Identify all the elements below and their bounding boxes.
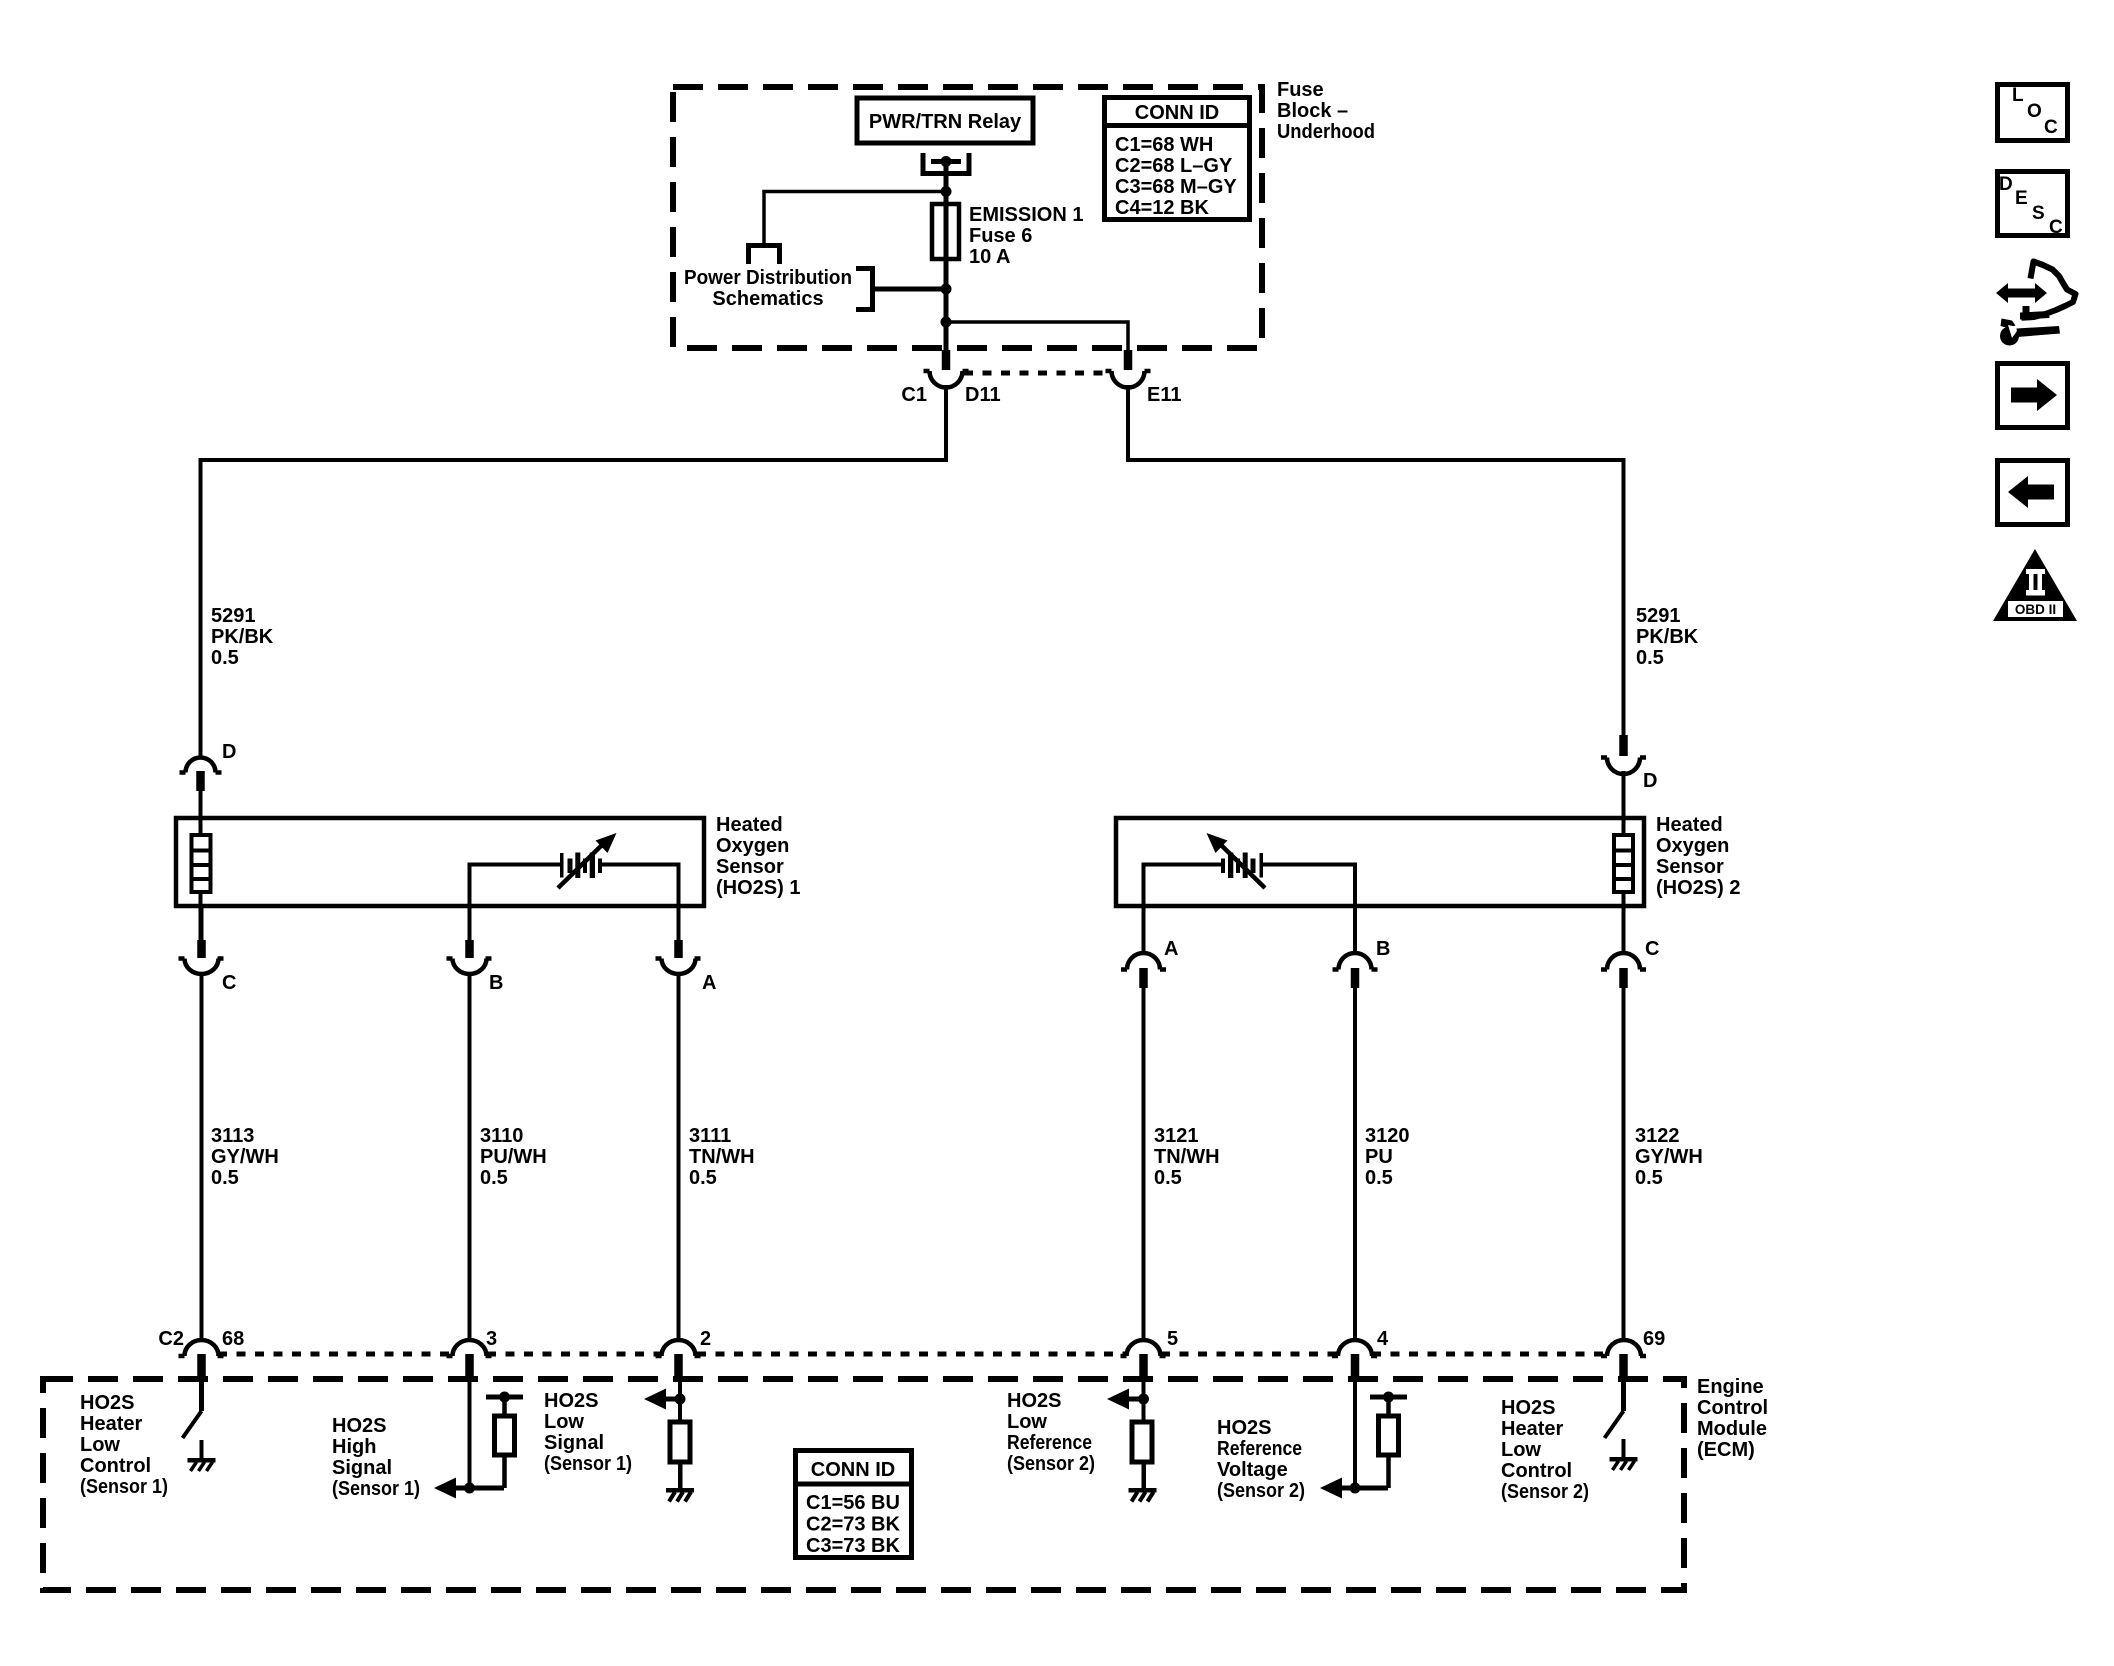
label B2 bbox=[1376, 938, 1390, 960]
svg-text:Reference: Reference bbox=[1217, 1438, 1302, 1460]
svg-text:GY/WH: GY/WH bbox=[211, 1146, 279, 1168]
svg-text:D11: D11 bbox=[965, 384, 1001, 406]
svg-text:5: 5 bbox=[1167, 1328, 1178, 1350]
svg-text:(Sensor 2): (Sensor 2) bbox=[1217, 1480, 1305, 1502]
wire: relay output down to fuse bbox=[944, 161, 949, 292]
wire 3121 TN/WH bbox=[1142, 987, 1146, 1342]
svg-text:Signal: Signal bbox=[332, 1457, 392, 1479]
svg-text:0.5: 0.5 bbox=[1636, 647, 1664, 669]
off-page fork symbol bbox=[749, 246, 780, 265]
svg-text:C1=56 BU: C1=56 BU bbox=[806, 1492, 900, 1514]
svg-text:HO2S: HO2S bbox=[332, 1415, 386, 1437]
svg-text:L: L bbox=[2012, 85, 2024, 106]
svg-text:HO2S: HO2S bbox=[1007, 1390, 1061, 1412]
power distribution schematics label bbox=[684, 267, 852, 310]
label HO2S heater low control sensor1 bbox=[80, 1392, 168, 1498]
svg-text:Heated: Heated bbox=[1656, 814, 1723, 836]
svg-text:CONN ID: CONN ID bbox=[811, 1459, 895, 1481]
icon wrench tool bbox=[2000, 319, 2060, 346]
heated oxygen sensor HO2S2 box bbox=[1116, 818, 1644, 906]
svg-text:10 A: 10 A bbox=[969, 246, 1011, 268]
sensor cell HO2S1 variable arrow bbox=[558, 833, 617, 888]
label HO2S heater low control sensor2 bbox=[1501, 1397, 1589, 1503]
ECM pin 69 connector bbox=[1601, 1340, 1646, 1376]
resistor R4 reference voltage pull bbox=[1320, 1375, 1407, 1499]
wire 3120 PU bbox=[1353, 987, 1357, 1342]
svg-text:Heated: Heated bbox=[716, 814, 783, 836]
svg-text:68: 68 bbox=[222, 1328, 244, 1350]
svg-text:Sensor: Sensor bbox=[1656, 856, 1724, 878]
svg-text:(Sensor 1): (Sensor 1) bbox=[332, 1478, 420, 1500]
svg-text:C4=12 BK: C4=12 BK bbox=[1115, 197, 1209, 219]
label 68 bbox=[222, 1328, 244, 1350]
label E11 bbox=[1147, 384, 1181, 406]
svg-text:A: A bbox=[702, 972, 716, 994]
fuse F: EMISSION 1 Fuse 6 10A bbox=[932, 204, 959, 259]
svg-text:Heater: Heater bbox=[80, 1413, 142, 1435]
svg-text:Engine: Engine bbox=[1697, 1376, 1764, 1398]
svg-text:Control: Control bbox=[80, 1455, 151, 1477]
svg-text:HO2S: HO2S bbox=[544, 1390, 598, 1412]
dotted line between D11 and E11 bbox=[964, 371, 1111, 376]
svg-text:C1: C1 bbox=[901, 384, 927, 406]
wire label 3110 bbox=[480, 1125, 547, 1189]
label HO2S high signal sensor1 bbox=[332, 1415, 420, 1500]
wire: branch to off-page fork bbox=[764, 192, 946, 244]
icon LOC box bbox=[1998, 85, 2068, 141]
ECM pin 4 connector bbox=[1332, 1340, 1377, 1376]
fuse block label bbox=[1277, 79, 1375, 143]
sensor cell HO2S1 plates bbox=[560, 853, 602, 879]
svg-text:HO2S: HO2S bbox=[1217, 1417, 1271, 1439]
ground G low signal sensor1 bbox=[666, 1488, 694, 1502]
svg-text:0.5: 0.5 bbox=[211, 647, 239, 669]
label 5 bbox=[1167, 1328, 1178, 1350]
svg-text:TN/WH: TN/WH bbox=[1154, 1146, 1220, 1168]
resistor R3 low reference to ground bbox=[1107, 1375, 1152, 1490]
svg-text:D: D bbox=[1643, 770, 1657, 792]
icon wrench squiggle outline bbox=[2020, 262, 2076, 320]
svg-text:HO2S: HO2S bbox=[80, 1392, 134, 1414]
svg-text:5291: 5291 bbox=[1636, 605, 1681, 627]
label C bbox=[222, 972, 236, 994]
svg-text:2: 2 bbox=[700, 1328, 711, 1350]
wire label 3121 bbox=[1154, 1125, 1220, 1189]
resistor R1 high signal pull bbox=[434, 1375, 523, 1499]
svg-text:3121: 3121 bbox=[1154, 1125, 1199, 1147]
svg-text:OBD II: OBD II bbox=[2015, 602, 2056, 617]
wire label 3111 bbox=[689, 1125, 755, 1189]
svg-text:Reference: Reference bbox=[1007, 1432, 1092, 1454]
pin B HO2S2 bbox=[1333, 904, 1378, 988]
sensor cell HO2S2 wire bbox=[1144, 865, 1356, 905]
power distribution schematics bracket bbox=[856, 269, 873, 310]
connector D right female cup bbox=[1601, 758, 1646, 775]
sensor cell HO2S1 wire bbox=[470, 865, 679, 905]
heated oxygen sensor HO2S1 box bbox=[176, 818, 704, 906]
wire 3122 GY/WH bbox=[1622, 987, 1626, 1342]
svg-text:(HO2S) 2: (HO2S) 2 bbox=[1656, 877, 1740, 899]
svg-text:PK/BK: PK/BK bbox=[211, 626, 274, 648]
svg-text:0.5: 0.5 bbox=[211, 1167, 239, 1189]
svg-text:GY/WH: GY/WH bbox=[1635, 1146, 1703, 1168]
fuse value label bbox=[969, 204, 1083, 268]
wire: E11 down to right bus bbox=[1128, 385, 1624, 736]
svg-text:3113: 3113 bbox=[211, 1125, 254, 1147]
label C2 bbox=[158, 1328, 184, 1350]
connector C1 pin E11 female cup bbox=[1106, 371, 1151, 388]
svg-text:(Sensor 1): (Sensor 1) bbox=[80, 1476, 168, 1498]
svg-text:0.5: 0.5 bbox=[1154, 1167, 1182, 1189]
svg-text:(ECM): (ECM) bbox=[1697, 1439, 1755, 1461]
svg-text:HO2S: HO2S bbox=[1501, 1397, 1555, 1419]
svg-text:C: C bbox=[2049, 217, 2063, 238]
pin C HO2S2 bbox=[1601, 904, 1646, 988]
svg-text:C2: C2 bbox=[158, 1328, 184, 1350]
icon right arrow box bbox=[1998, 364, 2068, 428]
junction node E11 branch bbox=[941, 317, 952, 328]
svg-text:Underhood: Underhood bbox=[1277, 121, 1375, 143]
svg-text:C3=73 BK: C3=73 BK bbox=[806, 1535, 900, 1557]
connector C1 pin D11 female cup bbox=[924, 371, 969, 388]
svg-text:0.5: 0.5 bbox=[480, 1167, 508, 1189]
ground G sensor1 heater bbox=[188, 1458, 216, 1471]
pin B HO2S1 bbox=[447, 904, 492, 974]
svg-text:C: C bbox=[1645, 938, 1659, 960]
ECM pin 5 connector bbox=[1121, 1340, 1166, 1376]
wire 3113 GY/WH bbox=[200, 972, 204, 1342]
ground G low reference sensor2 bbox=[1129, 1488, 1157, 1502]
label A2 bbox=[1164, 938, 1178, 960]
svg-text:Control: Control bbox=[1501, 1460, 1572, 1482]
sensor cell HO2S2 variable arrow bbox=[1207, 833, 1266, 888]
icon OBD II triangle bbox=[1993, 549, 2077, 621]
svg-text:3122: 3122 bbox=[1635, 1125, 1680, 1147]
svg-text:E: E bbox=[2015, 188, 2028, 209]
label 2 bbox=[700, 1328, 711, 1350]
label HO2S low signal sensor1 bbox=[544, 1390, 632, 1475]
connector C1 pin D11 male pin bbox=[942, 350, 951, 370]
svg-text:C1=68 WH: C1=68 WH bbox=[1115, 134, 1213, 156]
svg-text:Module: Module bbox=[1697, 1418, 1767, 1440]
svg-text:0.5: 0.5 bbox=[689, 1167, 717, 1189]
label C1 bbox=[901, 384, 927, 406]
svg-text:Schematics: Schematics bbox=[712, 288, 823, 310]
svg-text:(Sensor 2): (Sensor 2) bbox=[1007, 1453, 1095, 1475]
wire label 3122 bbox=[1635, 1125, 1703, 1189]
connector D right male pin bbox=[1619, 735, 1628, 756]
switch HO2S heater low control sensor 2 bbox=[1605, 1375, 1627, 1457]
switch HO2S heater low control sensor 1 bbox=[183, 1375, 205, 1458]
wire label 5291 PK/BK 0.5 right bbox=[1636, 605, 1699, 669]
label 4 bbox=[1377, 1328, 1389, 1350]
svg-text:CONN ID: CONN ID bbox=[1135, 102, 1219, 124]
svg-text:Sensor: Sensor bbox=[716, 856, 784, 878]
svg-text:Fuse 6: Fuse 6 bbox=[969, 225, 1032, 247]
wire: fuse to connector D11 bbox=[944, 289, 949, 352]
svg-text:C2=68 L–GY: C2=68 L–GY bbox=[1115, 155, 1233, 177]
pin A HO2S2 bbox=[1121, 904, 1166, 988]
svg-text:O: O bbox=[2027, 101, 2042, 122]
svg-text:Control: Control bbox=[1697, 1397, 1768, 1419]
heater element HO2S1 bbox=[192, 820, 211, 942]
svg-text:D: D bbox=[1999, 174, 2013, 195]
wire label 5291 PK/BK 0.5 left bbox=[211, 605, 274, 669]
CONN ID table bottom bbox=[793, 1451, 914, 1558]
icon left arrow box bbox=[1998, 461, 2068, 525]
relay contact terminal symbol bbox=[923, 153, 969, 174]
svg-text:S: S bbox=[2032, 203, 2045, 224]
svg-text:3: 3 bbox=[486, 1328, 497, 1350]
svg-text:C3=68 M–GY: C3=68 M–GY bbox=[1115, 176, 1237, 198]
wire: D11 down to left bus bbox=[201, 385, 947, 758]
svg-text:0.5: 0.5 bbox=[1365, 1167, 1393, 1189]
label D11 bbox=[965, 384, 1001, 406]
svg-text:PK/BK: PK/BK bbox=[1636, 626, 1699, 648]
ECM pin 2 connector bbox=[656, 1340, 701, 1376]
svg-text:Low: Low bbox=[80, 1434, 120, 1456]
wire 3111 TN/WH bbox=[677, 972, 681, 1342]
svg-text:Oxygen: Oxygen bbox=[716, 835, 789, 857]
icon wrench double arrow bbox=[1996, 283, 2047, 303]
label D left bbox=[222, 741, 236, 763]
engine control module dashed box bbox=[43, 1379, 1684, 1590]
connector C1 pin E11 male pin bbox=[1124, 350, 1133, 370]
svg-text:D: D bbox=[222, 741, 236, 763]
svg-text:(Sensor 2): (Sensor 2) bbox=[1501, 1481, 1589, 1503]
CONN ID table top bbox=[1102, 98, 1252, 220]
svg-text:PU/WH: PU/WH bbox=[480, 1146, 547, 1168]
svg-text:3111: 3111 bbox=[689, 1125, 731, 1147]
svg-text:A: A bbox=[1164, 938, 1178, 960]
pin A HO2S1 bbox=[656, 904, 701, 974]
svg-text:Voltage: Voltage bbox=[1217, 1459, 1288, 1481]
svg-text:Block –: Block – bbox=[1277, 100, 1348, 122]
wire 3110 PU/WH bbox=[468, 972, 472, 1342]
svg-text:5291: 5291 bbox=[211, 605, 256, 627]
svg-text:Heater: Heater bbox=[1501, 1418, 1563, 1440]
dotted pin line ECM bbox=[218, 1352, 1606, 1357]
label B bbox=[489, 972, 503, 994]
label A bbox=[702, 972, 716, 994]
label HO2S low reference sensor2 bbox=[1007, 1390, 1095, 1475]
label D right bbox=[1643, 770, 1657, 792]
svg-text:B: B bbox=[1376, 938, 1390, 960]
svg-text:Low: Low bbox=[1007, 1411, 1047, 1433]
label 3 bbox=[486, 1328, 497, 1350]
label C2 sensor bbox=[1645, 938, 1659, 960]
wire: D right to HO2S2 box bbox=[1622, 771, 1626, 820]
svg-text:Fuse: Fuse bbox=[1277, 79, 1324, 101]
svg-text:EMISSION 1: EMISSION 1 bbox=[969, 204, 1083, 226]
wire label 3120 bbox=[1365, 1125, 1410, 1189]
svg-text:4: 4 bbox=[1377, 1328, 1389, 1350]
svg-text:(HO2S) 1: (HO2S) 1 bbox=[716, 877, 800, 899]
svg-text:Signal: Signal bbox=[544, 1432, 604, 1454]
svg-text:Oxygen: Oxygen bbox=[1656, 835, 1729, 857]
resistor R2 low signal to ground bbox=[644, 1375, 690, 1490]
heater element HO2S2 bbox=[1614, 820, 1633, 942]
wire label 3113 bbox=[211, 1125, 279, 1189]
label HO2S reference voltage sensor2 bbox=[1217, 1417, 1305, 1502]
svg-text:PU: PU bbox=[1365, 1146, 1393, 1168]
svg-text:High: High bbox=[332, 1436, 376, 1458]
svg-text:C: C bbox=[2044, 117, 2058, 138]
junction node fuse output bbox=[941, 284, 952, 295]
relay K: PWR/TRN Relay box bbox=[857, 98, 1033, 143]
icon DESC box bbox=[1998, 172, 2068, 239]
HO2S1 label bbox=[716, 814, 800, 899]
svg-text:E11: E11 bbox=[1147, 384, 1181, 406]
wire: D to HO2S1 box bbox=[199, 789, 203, 820]
svg-text:C2=73 BK: C2=73 BK bbox=[806, 1514, 900, 1536]
svg-text:TN/WH: TN/WH bbox=[689, 1146, 755, 1168]
svg-text:PWR/TRN Relay: PWR/TRN Relay bbox=[869, 111, 1022, 133]
svg-text:3110: 3110 bbox=[480, 1125, 523, 1147]
svg-text:0.5: 0.5 bbox=[1635, 1167, 1663, 1189]
ECM label bbox=[1697, 1376, 1768, 1461]
ECM pin 68 connector bbox=[179, 1340, 224, 1376]
wire: branch to E11 bbox=[946, 322, 1128, 352]
junction node relay/branch bbox=[941, 186, 952, 197]
connector D left female dome bbox=[180, 758, 222, 773]
fuse block underhood dashed box bbox=[673, 87, 1262, 348]
svg-text:(Sensor 1): (Sensor 1) bbox=[544, 1453, 632, 1475]
svg-text:3120: 3120 bbox=[1365, 1125, 1410, 1147]
svg-text:Power Distribution: Power Distribution bbox=[684, 267, 852, 289]
wire: to power distribution bracket bbox=[875, 287, 946, 292]
sensor cell HO2S2 plates bbox=[1221, 853, 1263, 879]
ground G sensor2 heater bbox=[1610, 1457, 1638, 1470]
pin C HO2S1 bbox=[179, 904, 224, 974]
svg-text:69: 69 bbox=[1643, 1328, 1665, 1350]
svg-text:B: B bbox=[489, 972, 503, 994]
connector D left male pin bbox=[196, 771, 205, 791]
ECM pin 3 connector bbox=[447, 1340, 492, 1376]
svg-text:Low: Low bbox=[544, 1411, 584, 1433]
HO2S2 label bbox=[1656, 814, 1740, 899]
label 69 bbox=[1643, 1328, 1665, 1350]
svg-text:C: C bbox=[222, 972, 236, 994]
svg-text:Low: Low bbox=[1501, 1439, 1541, 1461]
